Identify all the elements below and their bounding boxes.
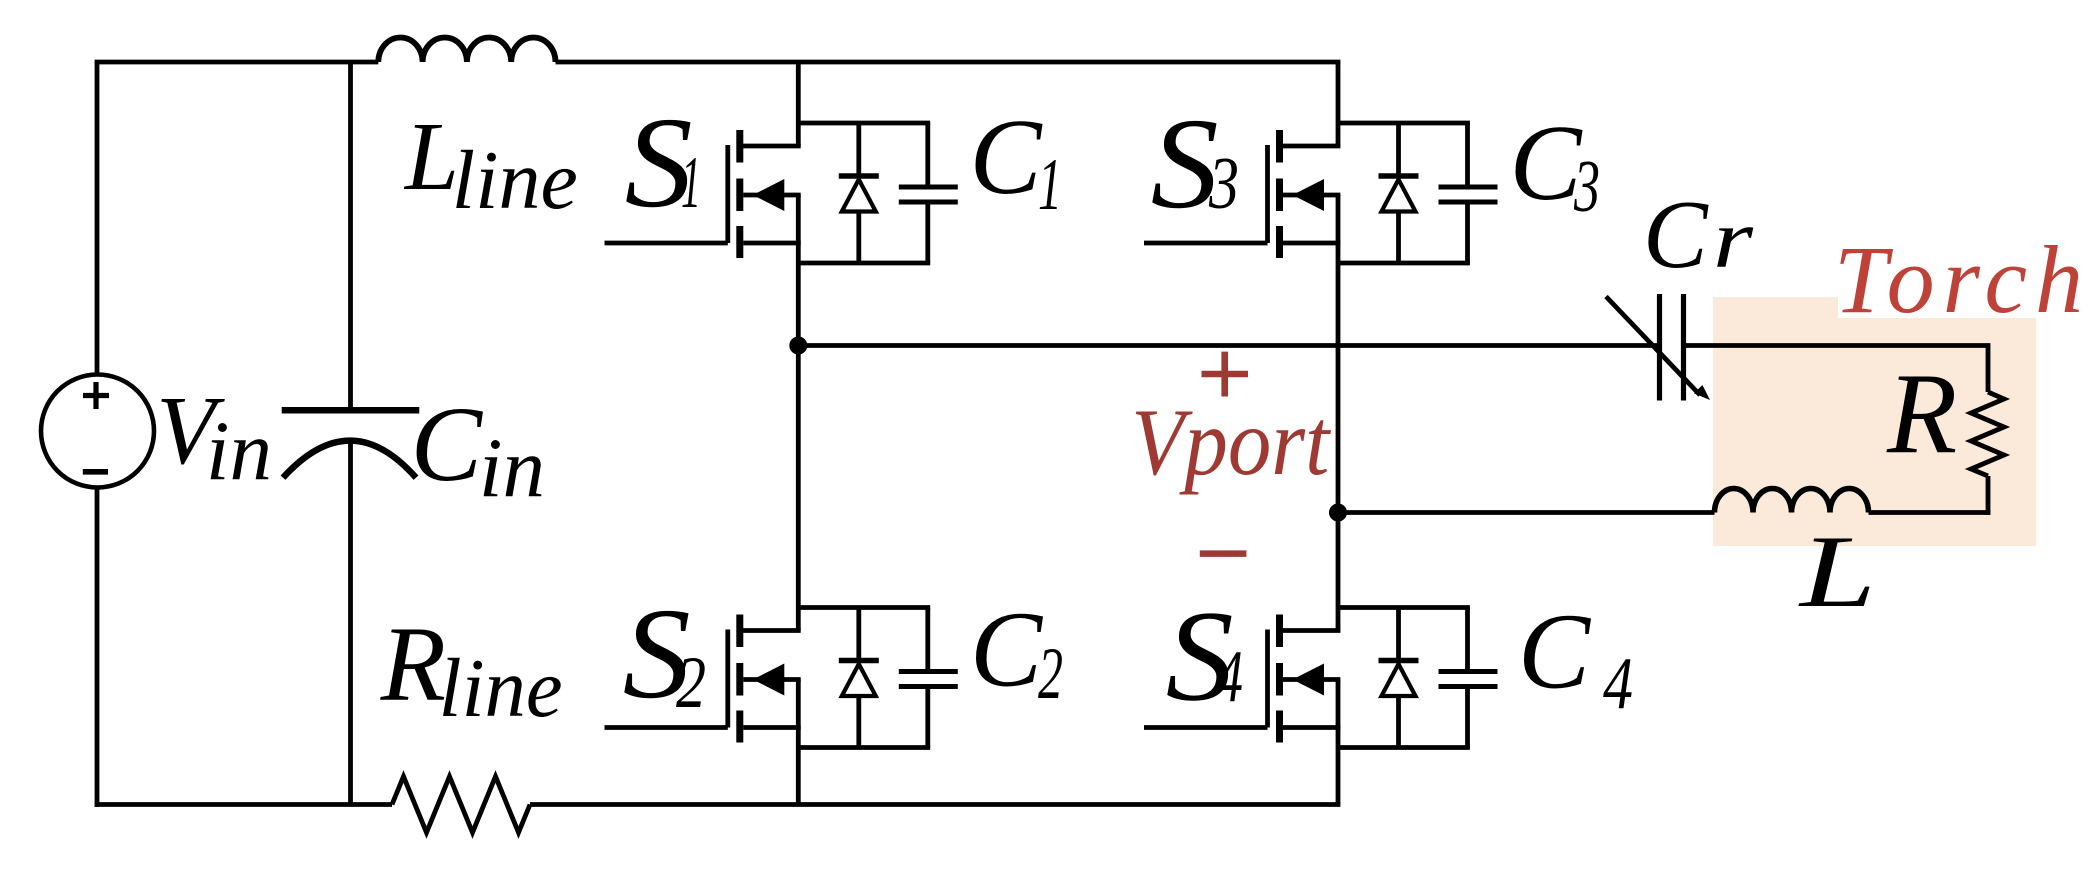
diode D3 (body diode of S3) — [1379, 123, 1419, 263]
label C2 — [970, 591, 1063, 716]
svg-text:2: 2 — [676, 642, 706, 724]
capacitor Cr plates — [1660, 294, 1684, 401]
wire Cin vertical bottom — [348, 441, 353, 805]
wire Cin vertical top — [348, 62, 353, 410]
wire bridge midpoint A to Cr — [798, 343, 1659, 348]
snubber branch S4 frame — [1338, 608, 1470, 748]
svg-text:C: C — [411, 386, 484, 504]
capacitor Cr arrow — [1606, 297, 1710, 401]
label Cin — [411, 386, 545, 515]
capacitor C4 — [1439, 672, 1498, 687]
label Vport — [1131, 389, 1331, 495]
svg-text:line: line — [452, 134, 578, 227]
svg-text:Torch: Torch — [1834, 226, 2089, 333]
capacitor C1 — [899, 187, 958, 202]
svg-text:4: 4 — [1603, 643, 1633, 725]
wire leg B S4-source to bottom bus — [1336, 680, 1341, 805]
capacitor C2 — [899, 672, 958, 687]
capacitor Cin — [282, 410, 420, 477]
svg-text:1: 1 — [1038, 144, 1062, 226]
label R (torch) — [1886, 350, 1957, 477]
resistor R_line — [392, 777, 530, 833]
label L_line — [403, 103, 578, 227]
svg-text:1: 1 — [681, 142, 701, 224]
label S1 — [625, 91, 701, 235]
wire leg A drain (top) — [796, 62, 801, 146]
wire torch right edge bottom — [1869, 476, 1991, 515]
Torch label background — [1838, 240, 2075, 318]
svg-text:in: in — [479, 421, 545, 515]
svg-text:R: R — [380, 606, 446, 724]
label C4 — [1518, 592, 1633, 725]
wire leg B drain (top) — [1336, 62, 1341, 146]
resistor R (torch) — [1971, 392, 2004, 476]
label Vin — [156, 377, 272, 498]
svg-text:L: L — [1797, 515, 1876, 629]
svg-text:3: 3 — [1573, 146, 1600, 228]
wire Cr to torch corner — [1684, 343, 1991, 348]
voltage source Vin — [41, 375, 154, 488]
svg-text:r: r — [1713, 193, 1753, 286]
wire bottom bus — [95, 802, 1341, 807]
wire left vertical (Vin branch) — [95, 62, 100, 807]
transistor S2 — [605, 615, 801, 743]
svg-text:C: C — [1518, 592, 1592, 711]
wire torch right edge top — [1986, 346, 1991, 393]
svg-text:line: line — [439, 642, 563, 735]
svg-text:Vport: Vport — [1131, 389, 1331, 495]
Vport plus sign — [1202, 352, 1249, 397]
label L (torch) — [1797, 515, 1876, 629]
diode D1 (body diode of S1) — [839, 123, 879, 263]
inductor L_line — [378, 38, 555, 63]
diode D2 (body diode of S2) — [839, 608, 879, 748]
label S2 — [623, 582, 706, 726]
wire leg A S1-source to S2-drain — [796, 195, 801, 631]
torch highlight box — [1713, 297, 2036, 546]
wire top bus — [95, 60, 1341, 65]
svg-text:C: C — [970, 591, 1044, 710]
node B junction dot — [1329, 504, 1347, 522]
snubber branch S1 frame — [798, 123, 930, 263]
svg-text:in: in — [206, 404, 272, 498]
label Cr — [1643, 181, 1753, 288]
wire bridge midpoint B to torch — [1338, 510, 1715, 515]
wire leg B S3-source to S4-drain — [1336, 195, 1341, 631]
Vport minus sign — [1200, 550, 1247, 557]
snubber branch S2 frame — [798, 608, 930, 748]
svg-text:L: L — [403, 103, 459, 210]
transistor S4 — [1144, 615, 1340, 743]
svg-text:2: 2 — [1038, 633, 1063, 715]
node A junction dot — [789, 337, 807, 355]
svg-text:3: 3 — [1208, 143, 1239, 225]
transistor S1 — [605, 130, 801, 258]
label S3 — [1151, 92, 1239, 236]
svg-text:C: C — [1643, 181, 1709, 288]
svg-text:4: 4 — [1216, 636, 1243, 718]
svg-text:C: C — [970, 98, 1044, 217]
label S4 — [1166, 585, 1243, 729]
capacitor C3 — [1439, 187, 1498, 202]
label C3 — [1510, 104, 1601, 228]
inductor L (torch) — [1715, 489, 1869, 513]
transistor S3 — [1144, 130, 1340, 258]
snubber branch S3 frame — [1338, 123, 1470, 263]
svg-text:R: R — [1886, 350, 1957, 477]
wire leg A S2-source to bottom bus — [796, 680, 801, 805]
svg-text:C: C — [1510, 104, 1584, 223]
label R_line — [380, 606, 563, 735]
diode D4 (body diode of S4) — [1379, 608, 1419, 748]
label C1 — [970, 98, 1063, 226]
